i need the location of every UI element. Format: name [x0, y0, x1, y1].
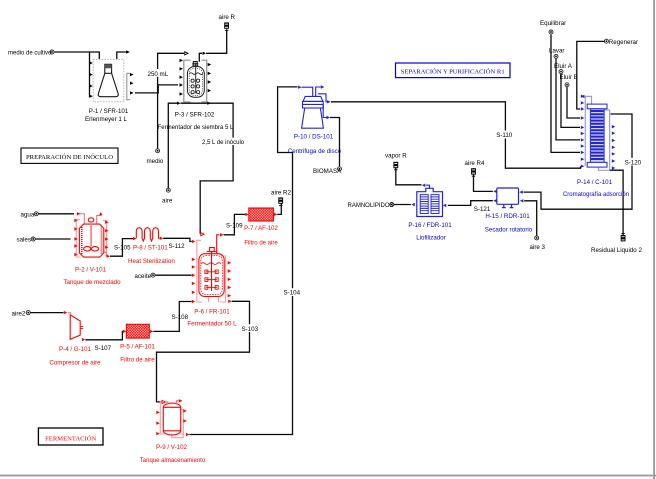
unit P-16 / FDR-101 lyophilizer: [417, 185, 443, 216]
wire aire in (bottom of P-3): [168, 103, 177, 190]
terminal aire2: [26, 311, 30, 315]
top vent arrow up: [99, 212, 102, 216]
svg-text:medio: medio: [147, 158, 164, 165]
unit P-10 / DS-101 disk centrifuge: [302, 87, 328, 128]
box FERMENTACION: [38, 428, 103, 445]
svg-text:P-16 / FDR-101: P-16 / FDR-101: [408, 222, 452, 229]
side port bars: [160, 402, 183, 438]
bottom outlet pipe: [172, 434, 184, 438]
svg-text:aire: aire: [162, 197, 173, 204]
svg-text:Tanque de mezclado: Tanque de mezclado: [63, 279, 121, 286]
vessel: [79, 224, 103, 257]
terminal Lavar: [554, 54, 558, 58]
wire aire2: [30, 312, 63, 314]
wire BIOMASA: [330, 118, 340, 167]
svg-text:P-4 / G-101: P-4 / G-101: [59, 346, 92, 353]
vessel: [163, 403, 180, 435]
wire Regenerar: [577, 41, 605, 109]
wire aire R out of P-3: [199, 53, 202, 62]
svg-text:aire R4: aire R4: [465, 160, 486, 167]
svg-text:H-15 / RDR-101: H-15 / RDR-101: [485, 213, 530, 220]
svg-text:2,5 L de inóculo: 2,5 L de inóculo: [202, 140, 245, 146]
wire agua: [39, 213, 75, 215]
svg-text:FERMENTACIÓN: FERMENTACIÓN: [45, 434, 96, 442]
svg-text:Regenerar: Regenerar: [609, 39, 638, 46]
svg-text:P-7 / AF-102: P-7 / AF-102: [244, 226, 278, 232]
wire aire 3: [524, 201, 537, 236]
top left inlet elbow: [166, 402, 168, 405]
window border right: [653, 0, 655, 479]
svg-text:Erlenmeyer 1 L: Erlenmeyer 1 L: [85, 116, 128, 123]
svg-text:P-3 / SFR-102: P-3 / SFR-102: [175, 112, 215, 119]
svg-text:Liofilizador: Liofilizador: [416, 234, 446, 241]
unit P-8 / ST-101 sterilizer coil: [128, 228, 175, 265]
svg-text:Filtro de aire: Filtro de aire: [244, 241, 278, 247]
svg-text:vapor R: vapor R: [385, 152, 407, 159]
terminal medio: [156, 149, 160, 153]
wire aceite: [155, 274, 192, 276]
motor: [210, 248, 215, 252]
svg-text:aire R2: aire R2: [271, 190, 292, 197]
svg-text:P-5 / AF-101: P-5 / AF-101: [120, 343, 155, 350]
wire S-110: [331, 102, 581, 168]
svg-text:S-105: S-105: [114, 245, 131, 252]
side bars: [184, 60, 207, 102]
unit P-2 / V-101 mixing tank: [76, 214, 106, 257]
wire P-1 top right vent: [117, 52, 128, 59]
terminal aire 3: [535, 236, 539, 240]
terminal RAMNOLIPIDOS: [390, 203, 394, 207]
terminal Residual Liquido 2: [621, 235, 626, 241]
side port bars: [76, 220, 106, 258]
terminal vapor R: [393, 162, 398, 168]
wire S-105: [110, 239, 133, 257]
wire S-121: [448, 201, 493, 206]
label S-110: [495, 131, 513, 140]
terminal medio de cultivo: [50, 50, 54, 54]
svg-text:S-104: S-104: [284, 290, 301, 297]
unit H-15 / RDR-101 rotary dryer: [497, 188, 519, 208]
svg-text:P-1 / SFR-101: P-1 / SFR-101: [89, 108, 129, 115]
top-right vent: [97, 216, 101, 225]
svg-text:Fermentador 50 L: Fermentador 50 L: [187, 321, 237, 328]
svg-text:PREPARACIÓN DE INÓCULO: PREPARACIÓN DE INÓCULO: [26, 153, 113, 161]
shaft: [90, 222, 92, 247]
terminal aire R2: [278, 197, 283, 203]
wire S-112: [163, 238, 191, 241]
svg-text:RAMNOLIPIDOS: RAMNOLIPIDOS: [348, 203, 394, 209]
svg-text:250 mL: 250 mL: [148, 71, 169, 78]
unit P-7 / AF-102 air filter: [244, 208, 278, 247]
svg-text:aire R: aire R: [219, 14, 236, 21]
wire Eluir B: [567, 87, 580, 118]
wire vapor R: [396, 168, 422, 185]
right arrows: [228, 261, 232, 264]
node P-1 left port bar: [90, 52, 100, 97]
air out stub: [217, 235, 220, 254]
svg-text:S-112: S-112: [169, 243, 186, 250]
top inlet arrow: [77, 212, 81, 215]
unit P-4 / G-101 compressor: [49, 311, 101, 367]
impellers: [205, 270, 218, 289]
svg-text:P-6 / FR-101: P-6 / FR-101: [194, 308, 230, 315]
wire medio: [158, 53, 184, 148]
unit P-14 / C-101 chromatography column: [563, 95, 629, 199]
svg-text:Eluir A: Eluir A: [554, 63, 573, 70]
port bars and pipes: [585, 96, 610, 170]
label 250 mL: [147, 69, 169, 78]
svg-text:agua: agua: [21, 212, 35, 219]
label 2,5 L de inoculo: [201, 138, 255, 146]
jacket band right: [101, 227, 103, 254]
outlet arrow: [107, 255, 111, 258]
terminal agua: [34, 212, 38, 216]
svg-text:S-103: S-103: [242, 326, 259, 333]
box PREPARACION DE INOCULO: [21, 148, 118, 163]
wire S-120: [524, 114, 633, 209]
wire aire R4: [474, 175, 493, 192]
port open arrow medio: [185, 52, 188, 55]
bottom flange: [587, 162, 607, 167]
top flange: [587, 104, 607, 109]
svg-text:Cromatografía adsorción: Cromatografía adsorción: [563, 192, 629, 198]
unit P-1 / SFR-101 Erlenmeyer: [85, 50, 133, 123]
box SEPARACION Y PURIFICACION R1: [396, 63, 511, 78]
svg-text:aire 3: aire 3: [530, 244, 546, 251]
svg-text:Centrifuga de disco: Centrifuga de disco: [288, 148, 342, 155]
terminal Equilibrar: [549, 30, 553, 34]
terminal BIOMASA: [338, 167, 342, 171]
wire S-101 250 mL: [135, 85, 178, 93]
svg-text:S-121: S-121: [474, 206, 491, 213]
top-left inlet bracket: [79, 214, 85, 224]
jacket scallop left: [81, 227, 83, 254]
window border bottom: [0, 475, 656, 477]
svg-text:P-9 / V-102: P-9 / V-102: [156, 444, 188, 451]
svg-text:aire2: aire2: [12, 310, 26, 317]
terminal Eluir A: [559, 70, 563, 74]
wire S-102 inoculo 2,5 L: [181, 103, 234, 234]
svg-text:Heat Sterilization: Heat Sterilization: [128, 258, 175, 265]
vessel: [199, 254, 224, 297]
svg-text:P-10 / DS-101: P-10 / DS-101: [294, 134, 334, 141]
svg-text:P-14 / C-101: P-14 / C-101: [577, 179, 613, 186]
wire S-104: [190, 87, 298, 435]
striped body: [590, 109, 604, 163]
P-1 left arrows: [89, 61, 93, 98]
P-3 left arrows: [177, 59, 183, 105]
svg-text:SEPARACIÓN Y PURIFICACIÓN R1: SEPARACIÓN Y PURIFICACIÓN R1: [401, 68, 505, 76]
svg-text:S-108: S-108: [172, 314, 189, 321]
wire Equilibrar: [551, 35, 580, 153]
wire S-109: [224, 214, 246, 234]
wire residual liquido 2: [610, 170, 624, 235]
vessel: [187, 62, 204, 98]
wire sales: [35, 238, 71, 240]
terminal Eluir B: [565, 83, 569, 87]
wire S-103: [157, 301, 250, 402]
wire Eluir A: [561, 74, 580, 128]
terminal sales: [31, 237, 35, 241]
svg-text:Lavar: Lavar: [549, 47, 564, 54]
svg-text:BIOMASA: BIOMASA: [313, 168, 342, 175]
svg-text:Fermentador de siembra 5 L: Fermentador de siembra 5 L: [158, 125, 234, 131]
inoculum open arrow: [201, 233, 204, 236]
wire RAMNOLIPIDOS: [394, 204, 411, 206]
svg-text:Secador rotatorio: Secador rotatorio: [485, 226, 533, 233]
svg-text:Residual Liquido 2: Residual Liquido 2: [591, 247, 642, 254]
wire aire R2: [277, 203, 281, 214]
terminal aceite: [151, 273, 155, 277]
svg-text:Eluir B: Eluir B: [560, 74, 578, 81]
P-2 right arrows: [105, 221, 109, 224]
svg-text:aceite: aceite: [135, 273, 152, 280]
left arrows: [192, 258, 196, 261]
P-1 right port bar: [127, 73, 130, 99]
bottom outlet elbow: [104, 253, 107, 257]
wire medio de cultivo: [55, 51, 90, 53]
P-2 left arrows: [74, 219, 78, 222]
top right vent elbow: [176, 401, 178, 405]
motor: [88, 218, 94, 222]
terminal aire R4: [471, 168, 476, 174]
svg-text:Tanque almacenamiento: Tanque almacenamiento: [140, 458, 206, 464]
terminal aire: [166, 188, 170, 192]
svg-text:S-120: S-120: [625, 159, 642, 166]
wire S-107: [85, 331, 123, 339]
wire Lavar: [556, 59, 580, 140]
svg-text:P-2 / V-101: P-2 / V-101: [75, 267, 107, 274]
svg-text:medio de cultivo: medio de cultivo: [8, 50, 52, 56]
S-112 arrow: [192, 240, 196, 243]
svg-text:Filtro de aire: Filtro de aire: [120, 356, 155, 363]
svg-text:Compresor de aire: Compresor de aire: [49, 359, 101, 366]
unit P-5 / AF-101 air filter: [120, 324, 155, 363]
label S-120: [624, 158, 642, 167]
unit P-3 / SFR-102 seed fermenter: [158, 52, 234, 132]
port arrow aire R: [203, 52, 207, 55]
svg-text:S-110: S-110: [496, 132, 513, 139]
terminal Regenerar: [604, 39, 608, 43]
svg-text:P-8 / ST-101: P-8 / ST-101: [133, 245, 168, 252]
unit P-9 / V-102 storage tank: [140, 399, 206, 464]
wire S-108: [153, 302, 191, 332]
unit P-6 / FR-101 fermenter 50 L: [187, 233, 237, 328]
impeller: [84, 247, 91, 251]
side bars: [197, 240, 226, 302]
svg-text:S-109: S-109: [226, 223, 243, 230]
svg-text:sales: sales: [17, 237, 31, 244]
svg-text:Equilibrar: Equilibrar: [540, 20, 566, 27]
svg-text:S-107: S-107: [95, 345, 112, 352]
terminal aire R: [224, 22, 229, 28]
P-3 right arrows: [207, 63, 211, 105]
air out arrow: [220, 233, 224, 236]
